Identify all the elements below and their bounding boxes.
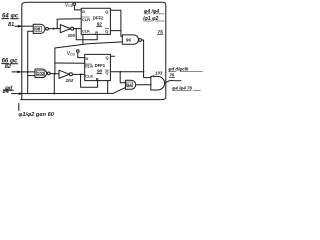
- svg-text:84: 84: [3, 89, 10, 95]
- svg-text:98: 98: [35, 27, 41, 32]
- power VDD (top): [65, 2, 74, 8]
- svg-text:D: D: [86, 56, 89, 61]
- svg-text:Q: Q: [105, 70, 108, 75]
- gate 103: [151, 76, 165, 90]
- svg-text:100: 100: [68, 33, 76, 38]
- svg-text:φ1/φ2 gen 60: φ1/φ2 gen 60: [18, 112, 54, 118]
- wire gate103 output 76: [164, 80, 181, 82]
- text annotation top right line2: [142, 16, 159, 22]
- label input phi-c middle: [2, 58, 19, 64]
- caption clock gen 60: [18, 112, 54, 118]
- svg-text:96: 96: [126, 38, 131, 43]
- svg-text:103: 103: [155, 70, 163, 75]
- text annotation bottom right line2: [172, 85, 192, 90]
- wire inverter100 out to CLK of DFF2: [74, 28, 82, 30]
- wire input 84 arrow long line to gate94: [12, 88, 126, 94]
- svg-text:VDD: VDD: [67, 51, 76, 57]
- wire branch down to gate94 in1: [120, 72, 125, 83]
- svg-text:CLK: CLK: [82, 28, 90, 33]
- label 82: [5, 64, 12, 70]
- wire R loop of DFF2: [76, 29, 97, 40]
- svg-text:102: 102: [37, 71, 45, 76]
- wire DFF1 Q stub: [110, 55, 114, 57]
- wire input 82 arrow to nand102: [12, 71, 35, 73]
- wire gate96 out down to gate103: [142, 40, 151, 78]
- gate 96: [122, 35, 138, 44]
- wire DFF1 bottom pin to 84 line: [107, 81, 109, 94]
- svg-text:R: R: [96, 76, 99, 81]
- svg-text:75: 75: [157, 30, 163, 36]
- node dot on 84 line: [53, 93, 55, 95]
- wire R loop of DFF1: [81, 74, 98, 87]
- caption leader: [18, 104, 20, 111]
- label input phi-d: [5, 85, 13, 91]
- wire bus nand98 in2: [28, 31, 34, 93]
- wire nand102 out: [50, 73, 59, 75]
- svg-text:CLK: CLK: [85, 74, 93, 79]
- nand gate 98: [33, 24, 45, 33]
- svg-text:φd d/φclk: φd d/φclk: [168, 67, 189, 72]
- nand gate 102: [35, 69, 47, 78]
- label 84: [3, 89, 10, 95]
- wire input 81 arrow: [15, 25, 34, 27]
- svg-text:92: 92: [97, 22, 103, 27]
- text annotation top right line1: [144, 9, 160, 15]
- wire junctionB down to 84 line: [53, 74, 55, 94]
- wire DFF1 Qbar to vertical: [110, 71, 144, 73]
- node junction C: [80, 73, 82, 75]
- svg-text:104: 104: [66, 78, 74, 83]
- svg-text:Q: Q: [106, 55, 109, 60]
- flip-flop DFF2 (92): [81, 8, 110, 34]
- svg-text:DFF2: DFF2: [93, 16, 104, 21]
- text annotation bottom right line1: [168, 67, 189, 72]
- svg-text:Q: Q: [105, 9, 108, 14]
- svg-text:VDD: VDD: [65, 2, 74, 8]
- flip-flop DFF1 (90): [85, 54, 111, 80]
- outer box (clock generator 60): [21, 2, 166, 99]
- wire branch to CLR of DFF1: [55, 62, 85, 64]
- svg-text:CLR: CLR: [82, 17, 90, 22]
- svg-text:82: 82: [5, 64, 12, 70]
- label 76: [169, 72, 174, 77]
- wire branch to CLR of DFF2: [57, 19, 81, 29]
- inverter 104: [59, 70, 69, 78]
- node junction A: [53, 28, 55, 30]
- svg-text:R: R: [95, 30, 98, 35]
- wire VDD to D of DFF1: [78, 52, 85, 57]
- svg-text:φ4 /φ4 76: φ4 /φ4 76: [172, 85, 192, 90]
- label 75: [157, 30, 163, 36]
- wire VDD to D of DFF2: [74, 5, 81, 9]
- svg-text:76: 76: [169, 72, 174, 77]
- wire net B nand102-out to gate96 in2: [55, 42, 122, 74]
- svg-text:D: D: [82, 9, 85, 14]
- wire bus stub to nand102 in2: [28, 75, 35, 77]
- svg-text:Q: Q: [105, 28, 108, 33]
- wire DFF2 set pin down to net B: [82, 34, 84, 44]
- inverter 100: [60, 25, 70, 33]
- svg-text:90: 90: [97, 69, 103, 74]
- gate 94: [125, 80, 135, 89]
- svg-text:DFF1: DFF1: [95, 63, 106, 68]
- node junction on bus: [27, 71, 29, 73]
- node junction B: [54, 73, 56, 75]
- node junction D: [119, 71, 121, 73]
- wire DFF2 Q to gate96 in1: [110, 10, 122, 36]
- wire gate94 out to gate103: [136, 84, 151, 86]
- power VDD (lower): [67, 51, 76, 57]
- svg-text:81: 81: [8, 22, 14, 28]
- bubble nand98: [46, 27, 49, 30]
- label 81: [8, 22, 14, 28]
- wire nand98 output to inverter: [49, 28, 61, 30]
- wire inverter104 out to CLK of DFF1: [72, 73, 84, 75]
- label input phi-c top: [2, 13, 19, 19]
- wire DFF2 Qbar to gate96 vertical: [110, 30, 121, 32]
